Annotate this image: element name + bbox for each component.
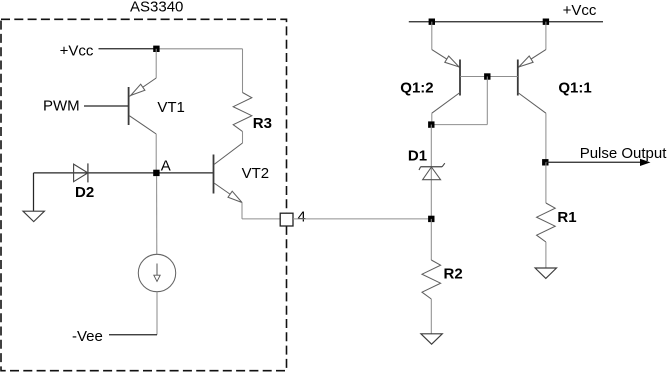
wire current source to -Vee — [156, 292, 158, 335]
wire base-collector tie vertical — [486, 77, 488, 125]
svg-text:AS3340: AS3340 — [130, 0, 183, 15]
svg-text:Q1:1: Q1:1 — [558, 80, 591, 97]
transistor Q1:1 (PNP) — [518, 22, 546, 163]
wire R1 bottom lead — [545, 242, 547, 268]
svg-text:4: 4 — [298, 208, 306, 225]
current source symbol — [138, 176, 175, 292]
svg-text:VT1: VT1 — [157, 99, 185, 116]
wire R2 top lead — [430, 219, 432, 260]
svg-text:D1: D1 — [408, 147, 427, 164]
junction pulse output node — [542, 159, 548, 165]
wire pin 4 to D1/R2 node — [293, 218, 431, 220]
svg-text:VT2: VT2 — [242, 165, 270, 182]
IC boundary dashed box AS3340 — [1, 19, 287, 370]
diode D2 — [74, 163, 88, 182]
wire base-collector tie horizontal — [431, 124, 487, 126]
junction rail/Q1:1 — [543, 19, 549, 25]
wire -Vee lead — [109, 334, 157, 336]
wire R3 top lead — [242, 49, 244, 93]
wire R1 top lead — [545, 162, 547, 203]
svg-text:R1: R1 — [557, 209, 576, 226]
node junction Vcc/VT1/R3 — [153, 46, 159, 52]
transistor VT1 (PNP) — [129, 49, 157, 134]
junction rail/Q1:2 — [429, 19, 435, 25]
svg-text:R2: R2 — [444, 265, 463, 282]
svg-text:D2: D2 — [75, 184, 94, 201]
junction pin4/D1/R2 — [428, 216, 434, 222]
transistor VT2 (NPN) — [214, 143, 243, 203]
zener diode D1 — [419, 163, 445, 180]
svg-text:PWM: PWM — [43, 97, 80, 114]
wire emitter to pin 4 — [242, 218, 280, 220]
wire pulse output with arrow — [546, 159, 651, 166]
wire R2 bottom lead — [430, 299, 432, 334]
wire to ground (left) — [33, 173, 35, 211]
wire top rail to R3 — [156, 48, 242, 50]
svg-text:A: A — [161, 157, 171, 174]
resistor R2 — [422, 260, 441, 299]
ground (R1) — [535, 268, 556, 278]
wire base bus Q1:2/Q1:1 — [460, 76, 517, 78]
junction base bus — [484, 73, 490, 79]
resistor R1 — [537, 203, 556, 242]
ground (R2) — [421, 334, 442, 344]
wire D2 row / VT2 base — [34, 172, 214, 174]
junction collector Q1:2 / D1 — [428, 121, 434, 127]
transistor Q1:2 (PNP) — [432, 22, 460, 125]
wire R3 bottom lead — [242, 132, 244, 144]
ground (left) — [23, 211, 44, 221]
svg-text:+Vcc: +Vcc — [60, 42, 94, 59]
svg-text:Pulse Output: Pulse Output — [580, 145, 668, 162]
wire +Vcc rail — [409, 21, 603, 23]
svg-text:+Vcc: +Vcc — [563, 2, 597, 19]
svg-text:Q1:2: Q1:2 — [400, 80, 433, 97]
svg-text:-Vee: -Vee — [72, 328, 103, 345]
wire D1 branch vertical — [430, 125, 432, 219]
node A junction — [153, 170, 159, 176]
wire PWM to VT1 base — [84, 105, 129, 107]
wire VT1 collector to node A — [155, 134, 157, 173]
wire +Vcc lead — [99, 48, 157, 50]
pin 4 terminal square — [280, 213, 293, 226]
svg-text:R3: R3 — [253, 115, 272, 132]
resistor R3 — [233, 93, 252, 132]
wire VT2 emitter down — [241, 203, 243, 219]
